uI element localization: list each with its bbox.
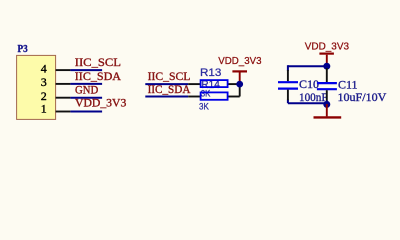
svg-text:R13: R13 <box>200 67 221 79</box>
connector P3 body <box>17 55 56 119</box>
svg-text:IIC_SCL: IIC_SCL <box>148 71 191 83</box>
svg-text:C10: C10 <box>299 77 319 91</box>
svg-text:10uF/10V: 10uF/10V <box>338 90 387 104</box>
svg-text:3K: 3K <box>201 89 211 99</box>
power VDD_3V3 (right) <box>305 42 350 64</box>
capacitor C10 <box>278 65 298 103</box>
wire IIC_SDA (pin 3) <box>70 83 102 85</box>
svg-text:VDD_3V3: VDD_3V3 <box>218 56 262 67</box>
junction dot (bottom rail) <box>323 101 330 108</box>
pin 2 <box>41 89 71 103</box>
wire IIC_SCL stub (middle) <box>145 83 188 85</box>
pin 4 <box>41 62 71 76</box>
pin 3 <box>41 75 71 89</box>
svg-text:1: 1 <box>41 101 47 115</box>
pin 1 <box>41 101 71 115</box>
capacitor C11 <box>317 68 337 104</box>
svg-text:GND: GND <box>75 84 98 96</box>
svg-text:VDD_3V3: VDD_3V3 <box>305 42 350 53</box>
wire VDD_3V3 (pin 1) <box>70 111 102 113</box>
wire IIC_SCL (pin 4) <box>70 69 102 71</box>
junction dot (R13/R14/VDD) <box>236 81 243 88</box>
svg-text:4: 4 <box>41 62 47 76</box>
resistor R14 <box>188 92 240 99</box>
ground <box>314 104 342 117</box>
svg-text:3: 3 <box>41 75 47 89</box>
wire IIC_SDA stub (middle) <box>145 96 188 98</box>
junction dot (top rail) <box>323 63 330 70</box>
wire GND (pin 2) <box>70 97 102 99</box>
svg-text:IIC_SDA: IIC_SDA <box>75 71 122 83</box>
svg-text:VDD_3V3: VDD_3V3 <box>75 97 127 109</box>
svg-text:3K: 3K <box>199 102 209 112</box>
svg-text:IIC_SDA: IIC_SDA <box>148 84 191 96</box>
resistor R13 <box>188 80 240 87</box>
wire top rail <box>288 65 327 67</box>
svg-text:IIC_SCL: IIC_SCL <box>75 57 121 69</box>
svg-text:P3: P3 <box>18 44 28 55</box>
power VDD_3V3 (middle) <box>218 56 262 81</box>
wire R13/R14 to VDD (vertical) <box>239 84 241 96</box>
wire bottom rail <box>288 102 327 104</box>
svg-text:100nF: 100nF <box>299 90 328 104</box>
